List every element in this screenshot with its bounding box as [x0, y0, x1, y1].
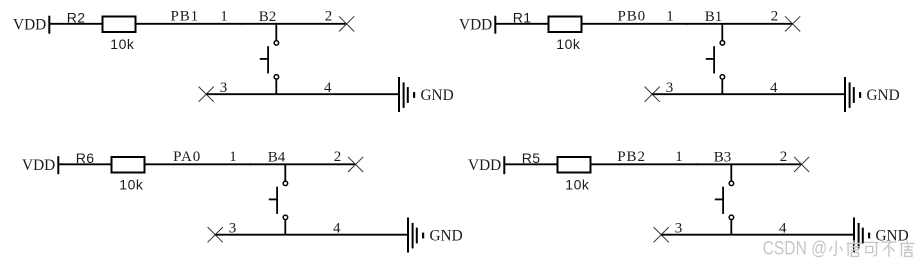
push button B3: pin 1 stub [730, 164, 732, 181]
resistor R6 [112, 157, 145, 173]
svg-text:R1: R1 [513, 9, 532, 25]
ground symbol GND [407, 218, 409, 253]
svg-text:PB2: PB2 [617, 149, 646, 165]
push button B4: pin 3/4 stub [284, 220, 286, 235]
wire B3 pin 1 to pin 2 [696, 163, 802, 165]
wire R1 to B1 pin 1 (net PB0) [582, 23, 688, 25]
wire B4 pin 4 to GND [285, 234, 407, 236]
push button B2: upper contact [274, 41, 279, 46]
ground symbol GND [844, 77, 846, 112]
push button B3: upper contact [729, 181, 734, 186]
watermark char tang2 [900, 240, 915, 256]
svg-text:GND: GND [421, 87, 454, 104]
svg-text:R6: R6 [76, 150, 95, 166]
push button B4: upper contact [283, 181, 288, 186]
svg-text:10k: 10k [119, 176, 144, 192]
wire B1 pin 4 to GND [722, 93, 844, 95]
svg-text:2: 2 [780, 149, 788, 165]
svg-text:B4: B4 [268, 149, 286, 165]
push button B3: actuator [722, 187, 724, 214]
svg-text:GND: GND [430, 228, 463, 245]
svg-text:10k: 10k [110, 36, 135, 52]
no-connect X on B4 pin 2 [348, 157, 363, 172]
wire R5 to B3 pin 1 (net PB2) [591, 163, 697, 165]
no-connect X on B3 pin 2 [794, 157, 809, 172]
wire VDD to R2 [49, 23, 102, 25]
resistor R5 [558, 157, 591, 173]
svg-text:CSDN @: CSDN @ [763, 239, 828, 260]
push button B1: pin 1 stub [721, 24, 723, 41]
wire VDD to R5 [504, 163, 557, 165]
svg-text:2: 2 [325, 9, 333, 25]
push button B4: pin 1 stub [284, 164, 286, 181]
wire B1 pin 3 to junction [652, 93, 722, 95]
svg-text:2: 2 [771, 9, 779, 25]
no-connect X on B4 pin 3 [208, 227, 223, 242]
svg-text:1: 1 [220, 9, 228, 25]
svg-text:PB0: PB0 [618, 9, 647, 25]
push button B4: lower contact [283, 215, 288, 220]
svg-text:VDD: VDD [13, 17, 46, 34]
svg-text:B3: B3 [714, 149, 732, 165]
wire B4 pin 3 to junction [215, 234, 285, 236]
resistor R2 [103, 17, 136, 33]
wire B4 pin 1 to pin 2 [250, 163, 356, 165]
ground symbol GND [853, 218, 855, 253]
push button B1: actuator [713, 46, 715, 73]
svg-text:PA0: PA0 [173, 149, 201, 165]
no-connect X on B2 pin 3 [199, 87, 214, 102]
push button B4: actuator [276, 187, 278, 214]
push button B2: actuator [267, 46, 269, 73]
watermark char bu [881, 242, 896, 257]
svg-text:10k: 10k [556, 36, 581, 52]
wire B2 pin 1 to pin 2 [241, 23, 347, 25]
wire B3 pin 3 to junction [661, 234, 731, 236]
svg-text:PB1: PB1 [171, 9, 200, 25]
wire B2 pin 3 to junction [206, 93, 276, 95]
wire VDD to R6 [58, 163, 111, 165]
no-connect X on B3 pin 3 [654, 227, 669, 242]
power symbol VDD (circuit 3) [57, 156, 59, 174]
push button B2: lower contact [274, 75, 279, 80]
push button B1: pin 3/4 stub [721, 80, 723, 95]
svg-text:1: 1 [229, 149, 237, 165]
svg-text:1: 1 [666, 9, 674, 25]
push button B1: lower contact [720, 75, 725, 80]
svg-text:B1: B1 [705, 9, 723, 25]
push button B3: pin 3/4 stub [730, 220, 732, 235]
no-connect X on B2 pin 2 [339, 16, 354, 31]
wire B2 pin 4 to GND [276, 93, 398, 95]
svg-text:1: 1 [675, 149, 683, 165]
wire R2 to B2 pin 1 (net PB1) [136, 23, 242, 25]
watermark char tang [847, 240, 862, 256]
watermark char xiao [830, 241, 843, 256]
wire VDD to R1 [495, 23, 548, 25]
svg-text:VDD: VDD [468, 157, 501, 174]
svg-text:B2: B2 [259, 9, 277, 25]
push button B2: pin 1 stub [275, 24, 277, 41]
no-connect X on B1 pin 3 [645, 87, 660, 102]
svg-text:R2: R2 [67, 9, 86, 25]
push button B2: pin 3/4 stub [275, 80, 277, 95]
watermark char ke [864, 242, 879, 255]
svg-text:GND: GND [867, 87, 900, 104]
svg-text:2: 2 [334, 149, 342, 165]
wire B3 pin 4 to GND [731, 234, 853, 236]
svg-text:VDD: VDD [22, 157, 55, 174]
svg-text:VDD: VDD [459, 17, 492, 34]
wire R6 to B4 pin 1 (net PA0) [145, 163, 251, 165]
svg-text:R5: R5 [522, 150, 541, 166]
power symbol VDD (circuit 4) [503, 156, 505, 174]
no-connect X on B1 pin 2 [785, 16, 800, 31]
svg-text:10k: 10k [565, 176, 590, 192]
power symbol VDD (circuit 2) [494, 16, 496, 34]
wire B1 pin 1 to pin 2 [687, 23, 793, 25]
ground symbol GND [398, 77, 400, 112]
push button B3: lower contact [729, 215, 734, 220]
power symbol VDD (circuit 1) [48, 16, 50, 34]
resistor R1 [549, 17, 582, 33]
push button B1: upper contact [720, 41, 725, 46]
